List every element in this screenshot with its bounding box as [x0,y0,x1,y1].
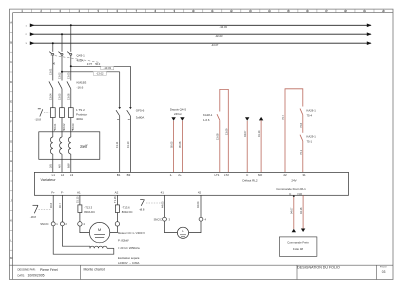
svg-text:DESIGNATION DU FOLIO: DESIGNATION DU FOLIO [297,266,340,270]
svg-text:T1.16: T1.16 [113,196,117,203]
commande frein box [279,237,317,256]
svg-text:04.07: 04.07 [290,207,294,214]
trip contact near F+ [33,205,52,213]
svg-text:Variateur: Variateur [41,178,57,182]
svg-text:13.03: 13.03 [66,72,70,79]
svg-text:B3: B3 [127,173,131,177]
wire phase drops L1 L2 L3 [53,25,71,52]
wire numbers 16.6 16.7 [49,202,62,208]
svg-text:3x80A: 3x80A [136,115,145,119]
svg-text:75-1: 75-1 [307,139,313,143]
LT1 LT2 loop [217,89,228,172]
svg-text:I: 20 Id / 2050A/w: I: 20 Id / 2050A/w [118,246,141,250]
motor M [89,222,109,242]
svg-text:75.6: 75.6 [299,122,303,128]
svg-text:13.10: 13.10 [126,141,130,148]
brake command lines [290,195,306,232]
inductor coils [50,137,70,172]
svg-text:F-: F- [61,190,64,194]
svg-text:6/W: 6/W [66,163,70,168]
svg-text:1 TS 2: 1 TS 2 [76,108,85,112]
svg-text:05.05: 05.05 [169,141,173,148]
svg-text:-02-03: -02-03 [215,34,223,38]
wire numbers 13.04-13.06 [48,93,70,100]
svg-text:50.0: 50.0 [95,62,101,66]
svg-text:-13.03: -13.03 [104,66,112,70]
svg-text:13.11: 13.11 [115,141,119,148]
svg-text:24Vcc: 24Vcc [174,112,183,116]
svg-text:F+: F+ [51,190,55,194]
svg-text:13.08: 13.08 [216,133,220,140]
svg-text:KA18-1: KA18-1 [203,113,213,117]
wire numbers 44.03 44.04 [160,201,200,208]
armature A2 [110,195,120,232]
svg-text:03: 03 [382,270,386,274]
svg-text:51.15: 51.15 [76,196,80,203]
bus L2 [30,32,372,38]
top ruler numbers [21,9,385,13]
svg-text:Folio 48: Folio 48 [293,247,303,251]
svg-text:FOLIO: FOLIO [380,266,387,268]
motor spec text [118,231,145,265]
armature A1 [78,195,90,232]
svg-text:-T13.6: -T13.6 [122,206,130,210]
svg-text:75-4: 75-4 [307,113,313,117]
svg-text:75.1: 75.1 [299,149,303,155]
svg-text:Q43-1: Q43-1 [77,54,86,58]
variateur (drive) box [34,172,348,195]
left ruler ticks [10,32,13,250]
svg-text:13.06: 13.06 [66,93,70,100]
svg-text:44.04: 44.04 [196,201,200,208]
svg-text:-16.6: -16.6 [77,85,84,89]
svg-text:42: 42 [198,190,202,194]
svg-text:-13.02: -13.02 [96,72,104,76]
svg-text:NO: NO [298,192,303,196]
svg-text:L3: L3 [70,173,74,177]
svg-text:1-: 1- [170,173,173,177]
wire numbers 75.x [281,114,303,155]
svg-text:LT2: LT2 [224,173,229,177]
svg-text:-43.07: -43.07 [211,43,219,47]
svg-text:13.02: 13.02 [58,72,62,79]
svg-text:16.7: 16.7 [58,202,62,208]
svg-text:47/T: 47/T [87,62,93,66]
24V supply pair [169,108,186,173]
svg-text:L2300V → 0.80A: L2300V → 0.80A [118,261,139,265]
svg-text:KM1B3: KM1B3 [77,80,87,84]
svg-text:22: 22 [283,173,287,177]
svg-text:400A: 400A [76,117,83,121]
svg-text:-t8.8: -t8.8 [139,208,145,212]
svg-text:LT1: LT1 [215,173,220,177]
svg-text:GF5-6: GF5-6 [136,109,145,113]
title block [10,265,394,279]
left ruler letters [10,21,13,261]
svg-text:E: E [10,100,12,104]
svg-text:16.6: 16.6 [49,202,53,208]
svg-text:NO: NO [258,173,263,177]
svg-text:H: H [10,159,12,163]
bus L1 [30,24,372,30]
tap wire 13.02 [61,71,120,76]
svg-text:13.05: 13.05 [58,93,62,100]
svg-text:A1: A1 [77,190,81,194]
svg-text:75.7: 75.7 [281,114,285,120]
svg-text:04.07: 04.07 [243,130,247,137]
svg-text:13.04: 13.04 [48,93,52,100]
variateur bottom terminal labels F+ F- A1 A2 41 42 [51,190,201,194]
bus L3 [30,41,372,47]
fuse trip contact [38,109,49,117]
svg-text:B: B [10,40,12,44]
disconnect Q43-1 [49,52,99,81]
svg-text:K: K [10,219,12,223]
svg-text:KA29-1: KA29-1 [307,135,317,139]
svg-text:13.01: 13.01 [48,68,52,75]
svg-text:B1: B1 [117,173,121,177]
svg-text:31: 31 [302,173,306,177]
fuses 1TS2 [50,108,73,137]
variateur top terminal labels L1 L2 L3 B1 B3 1- 2+ LT1 LT2 C NO 22 31 [52,173,306,177]
reactor pin numbers [48,128,74,168]
svg-text:1-6.6: 1-6.6 [203,118,210,122]
svg-text:Commande Frein: Commande Frein [287,241,309,245]
svg-text:Commande Frein RL1: Commande Frein RL1 [276,187,306,191]
svg-text:41: 41 [161,190,165,194]
svg-text:10/09/2005: 10/09/2005 [28,274,45,278]
svg-text:44.16: 44.16 [299,207,303,214]
svg-text:2+: 2+ [178,173,182,177]
svg-text:M: M [98,227,101,232]
svg-text:SNC/C: SNC/C [154,217,162,221]
svg-text:L2: L2 [61,173,65,177]
svg-text:05.06: 05.06 [178,141,182,148]
svg-text:24V: 24V [291,178,296,182]
C / NO off-page [243,117,263,172]
svg-text:44.03: 44.03 [160,201,164,208]
svg-text:800A DC: 800A DC [84,210,95,214]
svg-text:DESSINE PAR:: DESSINE PAR: [18,268,36,272]
svg-text:4/V: 4/V [58,164,62,168]
svg-text:2/U: 2/U [48,164,52,168]
svg-text:Défaut RL2: Défaut RL2 [242,178,258,182]
svg-text:KA26-1: KA26-1 [307,109,317,113]
svg-text:Self: Self [80,144,88,149]
brake 41/42 circuit [163,195,203,238]
self (line reactor) box [39,132,100,160]
svg-text:13.09: 13.09 [224,128,228,135]
22 / 31 loop [285,89,303,173]
svg-text:P: 82kW: P: 82kW [118,239,129,243]
svg-text:Depuis Q4-5: Depuis Q4-5 [170,108,187,112]
svg-text:Pierre Férel: Pierre Férel [40,268,58,272]
wire number labels 13.01-13.03 [48,68,70,79]
bus wire numbers [26,25,28,45]
svg-text:41.14: 41.14 [257,130,261,137]
trip contact near 41 [140,200,162,206]
field supply F+/F- [51,195,114,254]
svg-text:Monte chariot: Monte chariot [84,268,105,272]
svg-text:Protistor: Protistor [76,113,87,117]
svg-text:I: I [11,179,12,183]
svg-text:Excitation séparé: Excitation séparé [118,256,140,260]
title block texts [18,266,387,278]
contactor KM1B3 [49,81,71,107]
svg-text:SNC/C: SNC/C [40,222,48,226]
svg-text:800A DC: 800A DC [122,210,133,214]
svg-text:400A: 400A [77,59,84,63]
svg-text:-T13.3: -T13.3 [84,206,92,210]
fuse-switch GF5-6 [116,66,132,172]
junction dots [52,24,72,44]
svg-text:-18.8: -18.8 [30,215,37,219]
top ruler ticks [22,9,383,13]
svg-text:L1: L1 [52,173,56,177]
svg-text:A: A [10,21,12,25]
wire numbers 16.01-16.03 [53,123,75,130]
svg-text:Moteur CC 1 / 2300 V: Moteur CC 1 / 2300 V [118,231,145,235]
svg-text:-10.8: -10.8 [35,118,42,122]
tap wire 13.03 [70,65,131,70]
wire numbers 13.08 13.09 [216,128,229,140]
svg-text:F: F [10,120,12,124]
svg-text:DATE:: DATE: [18,273,26,277]
svg-text:-34.03: -34.03 [220,25,228,29]
wire numbers 13.10 13.11 [115,141,130,148]
svg-text:A2: A2 [115,190,119,194]
